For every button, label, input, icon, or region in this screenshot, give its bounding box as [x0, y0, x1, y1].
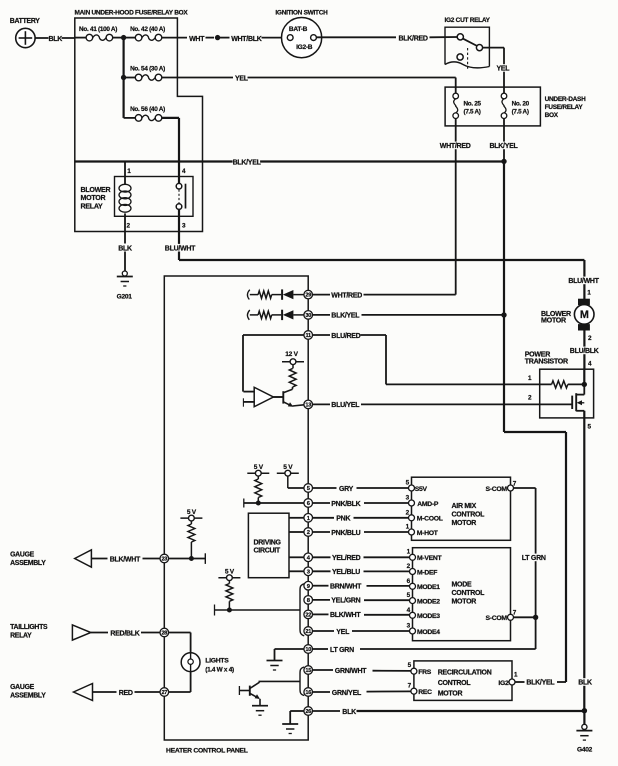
wire YEL/RED to M-VENT: [313, 556, 331, 558]
label BLK/YEL: [490, 142, 520, 150]
svg-text:CONTROL: CONTROL: [452, 512, 486, 519]
svg-text:UNDER-DASH: UNDER-DASH: [545, 96, 586, 103]
illumination driver transistor Q3: [238, 686, 240, 695]
svg-text:BATTERY: BATTERY: [10, 18, 40, 25]
svg-text:26: 26: [305, 709, 311, 715]
svg-text:BLK/YEL: BLK/YEL: [490, 143, 519, 150]
svg-text:WHT/RED: WHT/RED: [440, 143, 471, 150]
wire GRN/WHT to FRS: [313, 669, 334, 671]
wire node to fuse42: [124, 37, 136, 39]
svg-text:11: 11: [306, 333, 312, 339]
svg-text:MAIN UNDER-HOOD FUSE/RELAY BOX: MAIN UNDER-HOOD FUSE/RELAY BOX: [75, 9, 189, 16]
junction LT GRN: [533, 615, 538, 620]
pin MODE1: [410, 583, 416, 589]
ground connector 10: [267, 660, 283, 662]
svg-text:RED: RED: [119, 690, 133, 697]
svg-text:IG2 CUT RELAY: IG2 CUT RELAY: [445, 17, 491, 24]
power transistor gate resistor: [552, 381, 568, 388]
svg-text:YEL/BLU: YEL/BLU: [332, 569, 360, 576]
bracket connectors 15-16: [300, 667, 304, 696]
label WHT/RED: [313, 294, 331, 296]
svg-text:HEATER CONTROL PANEL: HEATER CONTROL PANEL: [166, 747, 248, 754]
pin MODE4: [410, 628, 416, 634]
svg-text:GAUGE: GAUGE: [10, 551, 35, 558]
wire GRY to air mix S5V: [313, 487, 337, 489]
IG2 relay actuator dashed line: [467, 48, 469, 70]
svg-text:S-COM: S-COM: [486, 486, 508, 493]
svg-text:21: 21: [305, 629, 311, 635]
heater control panel box: [164, 276, 308, 740]
relay pin 2 to ground: [124, 213, 126, 243]
connector 26: [304, 707, 313, 716]
wire PNK to M-COOL: [313, 517, 335, 519]
connector 3: [304, 567, 313, 576]
svg-text:22: 22: [305, 613, 311, 619]
svg-text:BLU/BLK: BLU/BLK: [570, 348, 599, 355]
wire fuse56 to relay pin4: [162, 117, 179, 119]
svg-text:No. 56 (40 A): No. 56 (40 A): [130, 106, 165, 113]
wire fuse54 out YEL: [162, 77, 233, 79]
svg-text:YEL: YEL: [235, 75, 249, 82]
wire PNK/BLU to M-HOT: [313, 531, 331, 533]
wire WHT/BLK to ignition switch: [218, 37, 230, 39]
svg-text:BLOWER: BLOWER: [81, 186, 111, 194]
ground G402: [583, 711, 585, 725]
svg-text:S5V: S5V: [415, 486, 428, 493]
amplifier buffer U1: [254, 387, 273, 406]
pin S-COM mode: [508, 614, 514, 620]
svg-text:YEL/RED: YEL/RED: [332, 555, 361, 562]
wire GRN/YEL to REC: [313, 691, 331, 693]
power transistor pin 5 wire to ground: [583, 411, 585, 711]
svg-text:M-COOL: M-COOL: [417, 516, 443, 523]
svg-text:CONTROL: CONTROL: [452, 590, 486, 597]
svg-text:DRIVING: DRIVING: [254, 539, 282, 546]
recirculation control motor: [414, 661, 512, 701]
svg-text:BAT-B: BAT-B: [289, 26, 308, 33]
pin S-COM air mix: [508, 485, 514, 491]
svg-text:BLK/YEL: BLK/YEL: [233, 159, 262, 166]
svg-text:MODE1: MODE1: [417, 584, 440, 591]
svg-text:MODE2: MODE2: [417, 598, 440, 605]
svg-text:15: 15: [305, 668, 311, 674]
connector 21: [304, 627, 313, 636]
wire YEL to MODE4: [313, 630, 335, 632]
wire YEL/BLU to M-DEF: [313, 570, 331, 572]
junction node fuse41/42: [121, 35, 126, 40]
wire box edge to fuse41: [75, 37, 86, 39]
svg-text:(1.4 W x 4): (1.4 W x 4): [205, 666, 234, 673]
pin M-COOL: [409, 515, 415, 521]
connector 28: [160, 628, 169, 637]
diode D30: [281, 310, 283, 320]
svg-text:BLK: BLK: [342, 709, 356, 716]
svg-text:M-VENT: M-VENT: [417, 555, 443, 562]
wire PNK/BLK to AMD-P: [313, 502, 331, 504]
wire BLK/YEL vertical: [503, 162, 505, 316]
connector 9: [304, 581, 313, 590]
svg-text:FRS: FRS: [418, 669, 432, 676]
wire YEL/GRN to MODE2: [313, 599, 331, 601]
svg-text:GRY: GRY: [339, 486, 354, 493]
svg-text:ASSEMBLY: ASSEMBLY: [10, 560, 46, 567]
wire to recirc IG2 pin: [557, 681, 566, 683]
svg-text:No. 25: No. 25: [464, 100, 482, 107]
label WHT/RED: [440, 142, 471, 150]
wire connector 28 to lights: [169, 632, 191, 634]
relay contact dashed link: [178, 190, 180, 204]
pin M-DEF: [410, 569, 416, 575]
svg-text:WHT/BLK: WHT/BLK: [231, 36, 262, 43]
wire connector 10 to ground: [275, 648, 305, 650]
pin M-VENT: [410, 554, 416, 560]
svg-text:YEL: YEL: [497, 66, 511, 73]
air mix control motor: [412, 477, 511, 540]
fuse No.25 (7.5 A): [453, 93, 459, 99]
junction BLK at G402 drop: [582, 708, 587, 713]
svg-text:No. 54 (30 A): No. 54 (30 A): [130, 65, 165, 72]
mode control motor: [413, 548, 511, 641]
svg-text:MODE4: MODE4: [417, 629, 440, 636]
svg-text:REC: REC: [418, 689, 432, 696]
svg-text:M-HOT: M-HOT: [417, 530, 439, 537]
wire YEL corner down to fuse25: [455, 78, 457, 94]
junction node fuse54: [121, 75, 126, 80]
wire BLK/YEL fuse20 down: [503, 119, 505, 162]
svg-text:IG2: IG2: [498, 680, 509, 687]
svg-text:10: 10: [305, 647, 311, 653]
label LT GRN: [522, 554, 549, 562]
input protection resistor row 29: [247, 290, 249, 300]
connector 4: [304, 553, 313, 562]
junction BLK/YEL bus: [501, 159, 506, 164]
svg-text:TAILLIGHTS: TAILLIGHTS: [10, 624, 48, 631]
svg-text:CIRCUIT: CIRCUIT: [254, 547, 281, 554]
pin M-HOT: [409, 529, 415, 535]
relay armature bar: [185, 184, 187, 209]
svg-text:IGNITION SWITCH: IGNITION SWITCH: [275, 9, 328, 16]
wire S-COM LT GRN down: [514, 487, 536, 489]
svg-text:LT GRN: LT GRN: [330, 647, 354, 654]
wire BLK to G402: [313, 710, 341, 712]
junction connector30 row: [501, 312, 506, 317]
svg-text:BRN/WHT: BRN/WHT: [330, 583, 362, 590]
svg-text:GRN/WHT: GRN/WHT: [335, 668, 367, 675]
svg-text:CONTROL: CONTROL: [438, 680, 472, 687]
svg-text:MOTOR: MOTOR: [452, 520, 477, 527]
svg-text:BLK/RED: BLK/RED: [399, 35, 428, 42]
wire connector 23 stub: [169, 558, 206, 560]
wire RED/BLK to connector 28: [91, 632, 108, 634]
bracket connectors 9-21: [300, 584, 304, 636]
svg-text:BLU/WHT: BLU/WHT: [568, 278, 599, 285]
wire lights to connector 27: [190, 672, 192, 692]
svg-text:MOTOR: MOTOR: [452, 598, 477, 605]
wire connector 6 row: [243, 499, 245, 508]
svg-text:BLK: BLK: [118, 245, 132, 252]
ground connector 26: [282, 723, 298, 725]
pin MODE2: [410, 598, 416, 604]
svg-text:13: 13: [305, 403, 311, 409]
svg-text:BLU/WHT: BLU/WHT: [165, 245, 196, 252]
svg-text:RELAY: RELAY: [81, 202, 104, 210]
svg-text:BLK/WHT: BLK/WHT: [330, 612, 361, 619]
svg-text:RELAY: RELAY: [10, 632, 32, 639]
feed wire node41 down to fuse54: [122, 38, 124, 78]
svg-text:AMD-P: AMD-P: [417, 501, 439, 508]
label YEL: [497, 64, 512, 72]
relay pin 1: [124, 162, 126, 185]
svg-text:12 V: 12 V: [285, 351, 298, 358]
label BLK/YEL: [233, 158, 261, 166]
connector 23: [160, 554, 169, 563]
svg-text:ASSEMBLY: ASSEMBLY: [10, 693, 46, 700]
MOSFET Q1: [583, 384, 585, 394]
connector 22: [304, 610, 313, 619]
ground G201: [122, 271, 127, 276]
connector 2: [304, 528, 313, 537]
junction pull-up: [227, 608, 232, 613]
ground Q3 emitter: [252, 705, 268, 707]
connector 8: [304, 596, 313, 605]
wire to bracket: [214, 605, 216, 616]
svg-text:AIR MIX: AIR MIX: [452, 503, 477, 510]
wire BLK/YEL bus: [75, 160, 504, 162]
wire driving circuit to connector 4: [289, 556, 304, 558]
connector 5: [304, 484, 313, 493]
wire IG2 relay out YEL down to fuse20: [483, 47, 504, 49]
svg-text:M: M: [580, 309, 589, 321]
pin S5V: [409, 485, 415, 491]
wire fuse42 out WHT: [162, 37, 187, 39]
IG2 relay switch blade: [463, 39, 477, 46]
driver transistor Q2: [282, 391, 284, 403]
wire S-COM to LT GRN junction: [514, 616, 536, 618]
connector 1: [304, 514, 313, 523]
wire BLK/WHT to MODE3: [313, 613, 329, 615]
junction drain node: [582, 382, 587, 387]
svg-text:16: 16: [305, 690, 311, 696]
svg-text:S-COM: S-COM: [486, 615, 508, 622]
svg-text:BOX: BOX: [545, 112, 559, 119]
svg-text:LT GRN: LT GRN: [522, 555, 546, 562]
relay switch contacts: [176, 183, 182, 189]
svg-text:MOTOR: MOTOR: [81, 194, 106, 202]
svg-text:No. 42 (40 A): No. 42 (40 A): [130, 26, 165, 33]
label BLK/YEL: [313, 314, 331, 316]
svg-text:29: 29: [305, 293, 311, 299]
connector 11: [304, 331, 313, 340]
svg-text:G201: G201: [117, 293, 133, 300]
svg-text:30: 30: [305, 313, 311, 319]
wire BLU/WHT to blower motor: [179, 259, 584, 261]
connector 29: [304, 290, 313, 299]
fuse No.20 (7.5 A): [501, 93, 507, 99]
svg-text:YEL: YEL: [336, 629, 350, 636]
svg-text:M-DEF: M-DEF: [417, 569, 437, 576]
svg-text:No. 41 (100 A): No. 41 (100 A): [79, 26, 117, 33]
lights bulb (1.4 W x 4): [181, 653, 200, 672]
svg-text:BLU/YEL: BLU/YEL: [331, 402, 360, 409]
svg-text:BLK/YEL: BLK/YEL: [526, 680, 555, 687]
svg-text:GRN/YEL: GRN/YEL: [332, 690, 362, 697]
wire fuse41 to node: [113, 37, 124, 39]
wire RED to connector 27: [93, 691, 117, 693]
wire driving circuit to connector 3: [289, 570, 304, 572]
wire BLK/WHT to connector 23: [91, 558, 107, 560]
pin REC: [411, 688, 417, 694]
junction 5V resistor: [256, 501, 261, 506]
svg-text:RECIRCULATION: RECIRCULATION: [438, 670, 492, 677]
label BLU/BLK: [570, 347, 600, 355]
wire BLK battery to fuse box: [35, 37, 75, 39]
wire LT GRN: [313, 648, 329, 650]
wire BLU/RED connector11 to power transistor: [312, 334, 330, 336]
wire connector 26 to left ground: [290, 710, 304, 712]
svg-text:MOTOR: MOTOR: [541, 317, 566, 325]
input protection resistor row 30: [247, 310, 249, 320]
feed wire node54 down to fuse56: [122, 78, 124, 118]
svg-text:LIGHTS: LIGHTS: [205, 658, 229, 665]
label BLK: [578, 678, 592, 686]
svg-text:YEL/GRN: YEL/GRN: [331, 597, 360, 604]
connector 27: [160, 688, 169, 697]
pin IG2: [509, 679, 515, 685]
svg-text:WHT/RED: WHT/RED: [331, 292, 362, 299]
svg-text:RED/BLK: RED/BLK: [110, 630, 139, 637]
wire driving circuit to connector 2: [289, 531, 304, 533]
connector 13: [304, 400, 313, 409]
svg-text:(7.5 A): (7.5 A): [464, 108, 481, 115]
svg-text:BLK/YEL: BLK/YEL: [331, 313, 360, 320]
connector 30: [304, 311, 313, 320]
wire WHT/RED fuse25 down to connector 29: [455, 119, 457, 295]
label BLK: [49, 35, 62, 43]
svg-text:27: 27: [161, 690, 167, 696]
label BLU/WHT: [165, 244, 195, 252]
wire BLU/YEL connector13 to MOSFET gate: [312, 403, 330, 405]
connector 16: [304, 688, 313, 697]
connector 10: [304, 645, 313, 654]
relay pin 3 BLU/WHT: [178, 209, 180, 260]
pin FRS: [411, 668, 417, 674]
svg-text:BLK: BLK: [49, 36, 63, 43]
svg-text:28: 28: [161, 631, 167, 637]
svg-text:PNK/BLU: PNK/BLU: [331, 530, 360, 537]
under-dash fuse/relay box: [445, 87, 540, 126]
power transistor pin 4 wire: [583, 369, 585, 384]
svg-text:TRANSISTOR: TRANSISTOR: [525, 357, 568, 365]
driver resistor: [292, 365, 294, 369]
svg-text:PNK: PNK: [336, 516, 350, 523]
svg-text:No. 20: No. 20: [512, 100, 530, 107]
connector 15: [304, 666, 313, 675]
svg-text:GAUGE: GAUGE: [10, 684, 35, 691]
wire BRN/WHT to MODE1: [313, 585, 329, 587]
wire connector 11 to driver input: [243, 334, 304, 336]
svg-text:2: 2: [307, 530, 310, 536]
svg-text:IG2-B: IG2-B: [296, 44, 313, 51]
svg-text:FUSE/RELAY: FUSE/RELAY: [545, 104, 584, 111]
pin AMD-P: [409, 500, 415, 506]
svg-text:BLU/RED: BLU/RED: [331, 333, 360, 340]
svg-text:MOTOR: MOTOR: [438, 690, 463, 697]
svg-text:(7.5 A): (7.5 A): [512, 108, 529, 115]
svg-text:BLK/WHT: BLK/WHT: [110, 556, 141, 563]
pin MODE3: [410, 612, 416, 618]
svg-text:MODE3: MODE3: [417, 613, 440, 620]
blower motor pin 2 BLU/BLK: [583, 330, 585, 369]
junction WHT node: [215, 35, 220, 40]
svg-text:WHT: WHT: [189, 36, 205, 43]
svg-text:MODE: MODE: [452, 581, 472, 588]
diode D29: [281, 289, 283, 299]
main under-hood fuse/relay box outline: [75, 18, 203, 232]
relay coil: [119, 184, 131, 192]
junction 5V at 23: [189, 556, 194, 561]
wire ignition to IG2 cut relay BLK/RED: [316, 36, 396, 38]
svg-text:G402: G402: [577, 746, 593, 753]
driving circuit: [248, 513, 289, 578]
svg-text:23: 23: [161, 557, 167, 563]
wire driving circuit to connector 1: [289, 517, 304, 519]
label BLU/WHT: [568, 277, 598, 285]
svg-text:PNK/BLK: PNK/BLK: [331, 501, 360, 508]
svg-text:BLK: BLK: [578, 680, 592, 687]
connector 6: [304, 499, 313, 508]
